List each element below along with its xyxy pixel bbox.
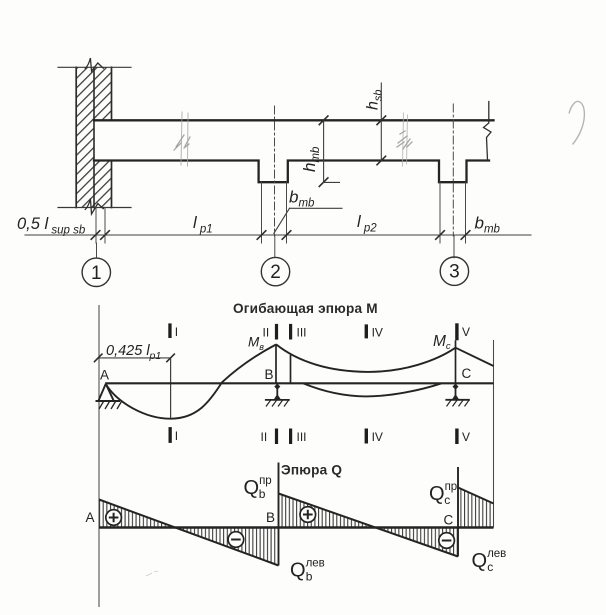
figure 3: shear force diagram xyxy=(86,101,585,583)
svg-text:V: V xyxy=(462,325,470,339)
hatched area span2 negative xyxy=(375,528,459,557)
support A triangle xyxy=(96,384,121,401)
pencil curl mark right margin xyxy=(569,101,584,144)
wall right edge line below slab xyxy=(111,161,113,208)
support C ground hatch xyxy=(447,400,470,406)
0,425 l p1 dimension line xyxy=(98,357,170,359)
figure 1: beam longitudinal section xyxy=(17,58,531,286)
extension line support2 left xyxy=(261,182,263,243)
support B ground line xyxy=(265,399,290,401)
extension line support3 right xyxy=(465,182,467,243)
extension line wall mid xyxy=(95,208,97,244)
minus sign circle span1 xyxy=(228,532,244,548)
extension line support3 left xyxy=(439,182,441,243)
axis circle 3 xyxy=(440,257,468,285)
support 3 centerline xyxy=(452,104,454,236)
h_mb dimension line xyxy=(323,120,325,182)
bottom section mark II bar xyxy=(275,429,278,445)
hatched area span1 negative xyxy=(174,528,279,566)
svg-text:1: 1 xyxy=(91,263,102,284)
svg-text:B: B xyxy=(265,367,274,382)
span 2 upper envelope curve xyxy=(276,344,456,372)
wall bottom break zigzag xyxy=(85,199,103,215)
svg-text:Эпюра Q: Эпюра Q xyxy=(281,463,342,478)
svg-text:C: C xyxy=(444,513,454,528)
wall right edge line above slab xyxy=(111,67,113,120)
extension line wall right xyxy=(104,208,106,244)
section III vertical line xyxy=(290,355,292,384)
line from Mc peak to right edge xyxy=(456,348,494,366)
svg-text:A: A xyxy=(86,510,95,525)
top section mark V bar xyxy=(455,323,458,340)
pencil scribble span 2 xyxy=(397,113,412,166)
bottom section mark IV bar xyxy=(365,429,368,444)
top section mark III bar xyxy=(289,324,292,340)
hatched area right of C xyxy=(458,488,494,528)
svg-text:B: B xyxy=(266,510,275,525)
svg-text:I: I xyxy=(175,325,178,339)
faint dots bottom left span1 xyxy=(146,571,158,576)
plus sign circle span1 xyxy=(106,510,122,526)
support B ground hatch xyxy=(266,400,289,406)
svg-text:III: III xyxy=(297,430,307,444)
figure 2: bending moment envelope diagram xyxy=(94,301,494,607)
h_sb dimension line xyxy=(380,83,382,161)
b_mb leader underline xyxy=(290,207,343,209)
top section mark IV bar xyxy=(365,324,368,338)
shear line span 1 xyxy=(99,500,279,566)
h_sb tick at slab bottom xyxy=(377,156,386,165)
wall top cap line xyxy=(58,66,131,68)
hatched area span2 positive xyxy=(279,494,375,528)
wall left edge line xyxy=(75,67,77,207)
long right vertical reference line xyxy=(493,340,495,528)
shear line right of C xyxy=(458,488,494,504)
svg-text:V: V xyxy=(462,430,470,444)
svg-text:IV: IV xyxy=(372,430,383,444)
support A hatch xyxy=(99,402,122,410)
jump at C xyxy=(457,467,459,557)
wall hatched area right column below slab xyxy=(94,161,112,208)
0,425 dim tick left xyxy=(94,354,103,363)
top section mark I bar xyxy=(168,323,171,338)
dim ticks on main dimension line xyxy=(91,231,470,240)
svg-text:II: II xyxy=(263,326,270,340)
svg-text:3: 3 xyxy=(449,262,460,283)
shear line span 2 xyxy=(279,494,459,557)
span 2 lower moment curve xyxy=(303,383,442,396)
vertical at support B moment peak xyxy=(275,344,277,383)
wall hatched area left column xyxy=(76,67,94,207)
svg-text:IV: IV xyxy=(372,326,383,340)
wall bottom cap line xyxy=(58,207,131,209)
support 1 circle stem xyxy=(96,243,98,258)
top section mark II bar xyxy=(275,324,278,340)
h_mb bottom reference line xyxy=(324,181,340,183)
svg-text:A: A xyxy=(100,368,109,383)
wall hatched area right column above slab xyxy=(94,67,112,120)
support B symbol xyxy=(273,384,281,401)
b_mb leader slant xyxy=(274,208,290,233)
svg-text:Огибающая эпюра М: Огибающая эпюра М xyxy=(233,301,378,316)
main dimension line xyxy=(25,234,531,236)
wall top break zigzag xyxy=(85,58,103,71)
svg-text:II: II xyxy=(261,430,268,444)
h_mb tick bottom xyxy=(319,178,328,187)
span 1 moment curve xyxy=(106,345,276,419)
support 3 circle stem xyxy=(453,236,455,258)
long left vertical reference line xyxy=(98,305,100,607)
svg-text:2: 2 xyxy=(270,262,281,283)
shear baseline xyxy=(99,526,494,528)
svg-text:C: C xyxy=(462,366,472,381)
vertical at max span moment xyxy=(170,358,172,419)
0,425 dim tick right xyxy=(166,354,175,363)
vertical at support C moment peak xyxy=(455,340,457,383)
plus sign circle span2 xyxy=(300,507,316,523)
extension line support2 right xyxy=(286,182,288,243)
pencil scribble span 1 xyxy=(174,112,190,166)
h_sb tick at slab top xyxy=(377,116,386,125)
svg-text:III: III xyxy=(297,326,307,340)
right end break line xyxy=(484,102,492,161)
wall middle line (slab end face) xyxy=(93,67,95,207)
slab top line xyxy=(94,119,494,121)
axis circle 2 xyxy=(261,257,289,285)
support C symbol xyxy=(451,384,459,401)
axis circle 1 xyxy=(82,258,110,286)
bottom section mark I bar xyxy=(169,427,172,443)
hatched area span1 positive xyxy=(99,500,174,528)
bottom section mark V bar xyxy=(455,429,458,445)
bottom section mark III bar xyxy=(289,429,292,445)
support C ground line xyxy=(445,399,469,401)
support 2 centerline xyxy=(274,106,276,236)
support 2 circle stem xyxy=(274,236,276,258)
svg-text:I: I xyxy=(175,429,178,443)
beam baseline xyxy=(105,382,493,384)
slab bottom line with main-beam drops xyxy=(94,161,489,183)
minus sign circle span2 xyxy=(439,533,455,549)
h_mb tick top xyxy=(319,116,328,125)
jump at B xyxy=(278,463,280,566)
